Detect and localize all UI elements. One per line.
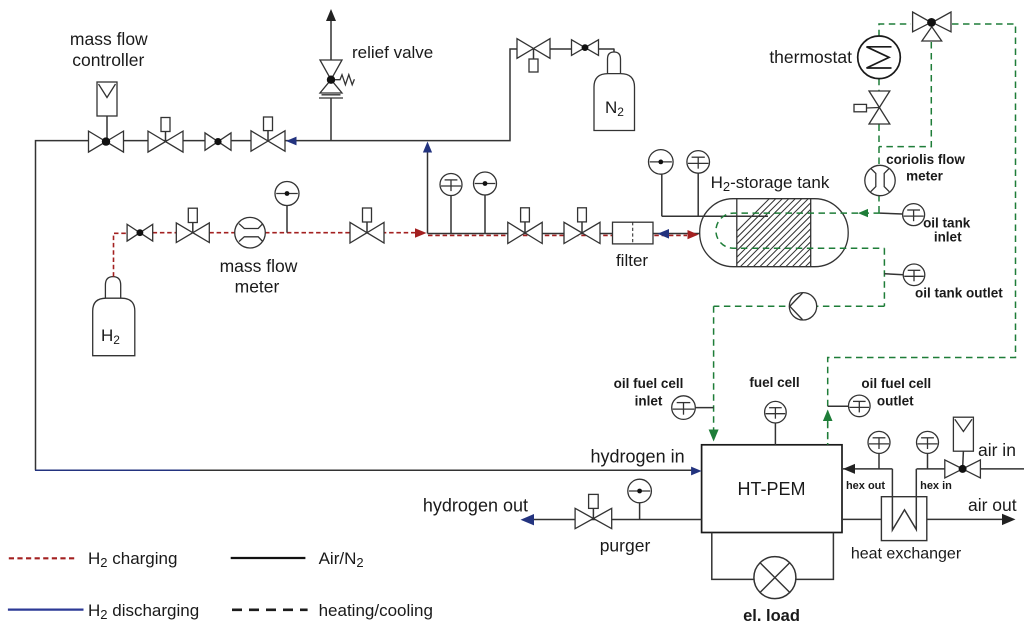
svg-text:hydrogen in: hydrogen in [591, 447, 685, 467]
svg-text:hex out: hex out [846, 480, 885, 492]
svg-text:inlet: inlet [934, 230, 962, 245]
svg-text:oil fuel cell: oil fuel cell [861, 376, 931, 391]
svg-text:oil tank: oil tank [923, 216, 971, 231]
svg-text:relief valve: relief valve [352, 43, 433, 62]
svg-text:hex in: hex in [920, 480, 952, 492]
svg-text:mass flow: mass flow [220, 256, 298, 276]
svg-text:fuel cell: fuel cell [749, 375, 799, 390]
svg-text:outlet: outlet [877, 394, 914, 409]
svg-text:controller: controller [72, 50, 144, 70]
svg-text:air in: air in [978, 440, 1016, 460]
svg-text:oil tank outlet: oil tank outlet [915, 286, 1003, 301]
svg-text:inlet: inlet [635, 394, 663, 409]
svg-text:coriolis flow: coriolis flow [886, 152, 965, 167]
svg-text:meter: meter [235, 277, 280, 297]
svg-text:air out: air out [968, 495, 1017, 515]
svg-text:oil fuel cell: oil fuel cell [614, 376, 684, 391]
svg-text:filter: filter [616, 251, 648, 270]
svg-text:hydrogen out: hydrogen out [423, 496, 528, 516]
svg-text:el. load: el. load [743, 607, 800, 625]
svg-text:mass flow: mass flow [70, 29, 148, 49]
svg-text:HT-PEM: HT-PEM [737, 479, 805, 499]
svg-text:heating/cooling: heating/cooling [319, 601, 433, 620]
svg-text:heat exchanger: heat exchanger [851, 546, 962, 563]
svg-text:purger: purger [600, 536, 651, 556]
svg-text:thermostat: thermostat [769, 47, 852, 67]
svg-text:meter: meter [906, 169, 944, 184]
